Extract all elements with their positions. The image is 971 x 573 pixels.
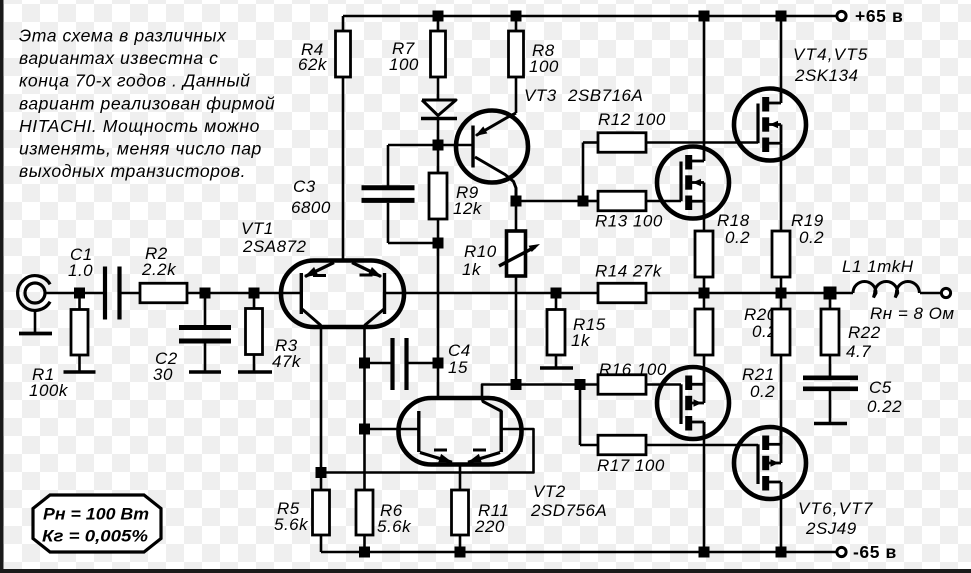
svg-text:R14 27k: R14 27k [595, 262, 663, 281]
svg-text:R12 100: R12 100 [598, 110, 666, 129]
resistor R5 [320, 473, 323, 491]
svg-text:0.2: 0.2 [725, 228, 750, 247]
svg-text:2SD756A: 2SD756A [530, 501, 607, 520]
resistor R16 [598, 375, 646, 395]
bottom border bar [0, 569, 971, 573]
svg-text:L1 1mkH: L1 1mkH [842, 257, 914, 276]
svg-text:VT1: VT1 [241, 219, 274, 238]
resistor R17 [580, 444, 598, 447]
node VT3 collector / R10 [511, 196, 522, 207]
diode VD1 [437, 77, 440, 99]
node feedback / R5 [316, 467, 327, 478]
inductor L1 [853, 282, 919, 298]
svg-text:2SK134: 2SK134 [794, 66, 859, 85]
wire output/feedback mid rail [385, 292, 599, 295]
node R15/R14 [551, 288, 562, 299]
svg-text:R10: R10 [464, 242, 497, 261]
transistor VT2 (dual NPN) [399, 398, 522, 465]
svg-text:VT2: VT2 [533, 482, 566, 501]
svg-text:100: 100 [389, 55, 419, 74]
wire R17 to VT7 gate [646, 444, 758, 447]
svg-text:1k: 1k [462, 260, 482, 279]
svg-text:2SB716A: 2SB716A [567, 86, 643, 105]
svg-text:конца 70-х годов . Данный: конца 70-х годов . Данный [19, 71, 250, 91]
node on +65 rail at R8 [511, 11, 522, 22]
left border bar [0, 0, 4, 573]
node R11 bottom [455, 547, 466, 558]
ground bar R15 [540, 366, 573, 370]
svg-text:+65 в: +65 в [855, 6, 903, 26]
resistor R11 [459, 464, 462, 490]
node VT3 base / R9 / C3 top [433, 140, 444, 151]
wire connector to C1 [45, 292, 105, 295]
wire VT3 collector node to R12/R13 junction [516, 200, 583, 203]
transistor VT4 2SK134 (N-channel MOSFET) [734, 89, 806, 161]
svg-text:Rн = 8 Ом: Rн = 8 Ом [870, 304, 955, 323]
node R12/R13 junction [578, 196, 589, 207]
svg-text:1k: 1k [571, 331, 591, 350]
node VT2 left base [359, 424, 370, 435]
svg-text:C5: C5 [869, 378, 892, 397]
svg-text:R16 100: R16 100 [599, 360, 667, 379]
resistor R4 [342, 16, 345, 31]
resistor R3 [253, 293, 256, 309]
resistor R19 [772, 231, 790, 277]
svg-text:HITACHI. Мощность можно: HITACHI. Мощность можно [19, 116, 260, 136]
svg-text:-65 в: -65 в [853, 542, 897, 562]
svg-text:Рн = 100 Вт: Рн = 100 Вт [43, 506, 149, 524]
svg-text:15: 15 [448, 358, 468, 377]
wire VT4 drain to +65 rail [780, 16, 783, 89]
input connector XS1 [18, 276, 50, 311]
svg-text:100: 100 [529, 57, 559, 76]
wire VT1 right collector down to R6 [363, 326, 366, 491]
resistor R18 [695, 231, 713, 277]
wire VT2 emitters to R11 [459, 463, 462, 464]
svg-text:выходных транзисторов.: выходных транзисторов. [19, 161, 246, 181]
svg-text:0.22: 0.22 [867, 397, 902, 416]
svg-text:2SA872: 2SA872 [242, 237, 307, 256]
wire R12 to VT4 gate [646, 141, 758, 144]
capacitor C5 [803, 375, 858, 380]
transistor VT5 2SK134 (N-channel MOSFET) [657, 147, 729, 219]
svg-text:VT3: VT3 [524, 86, 557, 105]
end bar C5 [814, 422, 847, 426]
wire C1 to R2 [120, 292, 141, 295]
svg-text:2SJ49: 2SJ49 [805, 519, 857, 538]
svg-text:C3: C3 [293, 177, 316, 196]
wire VT2 right collector riser [482, 385, 516, 401]
svg-text:Эта схема в различных: Эта схема в различных [19, 26, 227, 46]
transistor VT7 2SJ49 (P-channel MOSFET) [734, 427, 806, 499]
wire gate-drive node to R16 [516, 383, 598, 386]
node R9 bottom / C3 bottom [433, 238, 444, 249]
node on +65 rail at VT4 drain [699, 11, 710, 22]
svg-text:2.2k: 2.2k [141, 260, 177, 279]
svg-text:4.7: 4.7 [846, 342, 871, 361]
wire VT6 drain to -65 rail [703, 422, 706, 552]
wire VT5 source to R18 [703, 219, 706, 232]
wire -65V bottom rail [321, 551, 838, 554]
wire R2 to VT1 base [187, 292, 301, 295]
resistor R9 [437, 145, 440, 173]
svg-text:вариант реализован фирмой: вариант реализован фирмой [19, 93, 275, 113]
svg-text:изменять, меняя число пар: изменять, меняя число пар [19, 139, 262, 159]
info box Pн/Kг [33, 495, 161, 552]
resistor R6 [356, 490, 373, 535]
resistor R14 [598, 283, 646, 303]
resistor R21 [780, 293, 783, 309]
svg-text:220: 220 [474, 517, 505, 536]
svg-text:5.6k: 5.6k [274, 515, 309, 534]
node R16/R17 junction [575, 379, 586, 390]
terminal output [941, 288, 950, 297]
capacitor C4 [365, 362, 391, 365]
svg-text:R13 100: R13 100 [595, 212, 663, 231]
resistor R8 [515, 16, 518, 31]
resistor R10 (variable) [515, 201, 518, 231]
svg-text:62k: 62k [298, 55, 328, 74]
node C1/R1 [74, 288, 85, 299]
resistor R12 [583, 141, 598, 144]
description text block [19, 26, 275, 182]
wire VT4 source to R19 [780, 161, 783, 232]
transistor VT6 2SJ49 (P-channel MOSFET) [657, 367, 729, 439]
ground bar R3 [238, 370, 272, 374]
node VT6 drain bottom [699, 547, 710, 558]
resistor R15 [555, 293, 558, 310]
node output at R21 [776, 288, 787, 299]
node output at R22 [824, 287, 837, 300]
wire junction up to R12 [582, 143, 585, 202]
wire R13 to VT5 gate [646, 200, 681, 203]
wire R8 to VT3 emitter [515, 77, 518, 113]
terminal +65V [837, 11, 846, 20]
node output at R20 [699, 288, 710, 299]
node C4 left [359, 358, 370, 369]
transistor VT3 [438, 111, 528, 202]
resistor R2 [140, 283, 187, 303]
wire +65V top rail [343, 15, 838, 18]
resistor R1 [78, 293, 81, 310]
capacitor C1 [103, 267, 107, 320]
svg-text:100k: 100k [29, 381, 69, 400]
node on +65 rail at R7 [433, 11, 444, 22]
svg-text:30: 30 [153, 365, 173, 384]
resistor R13 [583, 200, 598, 203]
wire VT1 left collector down [320, 326, 323, 473]
capacitor C2 [204, 293, 207, 325]
svg-text:0.2: 0.2 [799, 228, 824, 247]
transistor VT1 (dual PNP) [281, 77, 404, 327]
wire R16 to VT6 gate [646, 383, 681, 386]
svg-text:вариантах известна с: вариантах известна с [19, 48, 219, 68]
capacitor C3 [388, 144, 438, 147]
wire R4 bottom to VT1 emitters [342, 77, 345, 261]
svg-text:VT4,VT5: VT4,VT5 [793, 45, 868, 64]
node C4 right [433, 358, 444, 369]
wire VT5 drain to +65 rail [703, 16, 706, 147]
node C2 top [200, 288, 211, 299]
svg-text:6800: 6800 [291, 198, 331, 217]
wire R16/R17 junction down [579, 385, 582, 446]
svg-text:0.2: 0.2 [750, 382, 775, 401]
wire VT2 right base to feedback [321, 429, 534, 473]
svg-text:R22: R22 [848, 323, 881, 342]
node R3 top [249, 288, 260, 299]
resistor R7 [437, 16, 440, 31]
svg-text:R17 100: R17 100 [597, 456, 665, 475]
node on +65 rail at VT5 drain [776, 11, 787, 22]
ground bar C2 [189, 370, 221, 374]
svg-text:12k: 12k [453, 199, 483, 218]
svg-text:5.6k: 5.6k [377, 517, 412, 536]
wire to VT2 left base [365, 428, 419, 431]
resistor R20 [703, 293, 706, 309]
terminal -65V [837, 547, 846, 556]
node VT7 drain bottom [776, 547, 787, 558]
node R6 bottom [359, 547, 370, 558]
wire VT7 drain to -65 rail [780, 482, 783, 552]
svg-text:Кг = 0,005%: Кг = 0,005% [42, 528, 148, 546]
svg-text:VT6,VT7: VT6,VT7 [798, 499, 873, 518]
resistor R22 [829, 293, 832, 309]
node lower gate-drive [511, 379, 522, 390]
svg-text:1.0: 1.0 [68, 261, 93, 280]
wire R9 node down to VT2 collector [437, 243, 440, 398]
svg-text:47k: 47k [272, 352, 302, 371]
ground bar R1 [64, 370, 96, 374]
